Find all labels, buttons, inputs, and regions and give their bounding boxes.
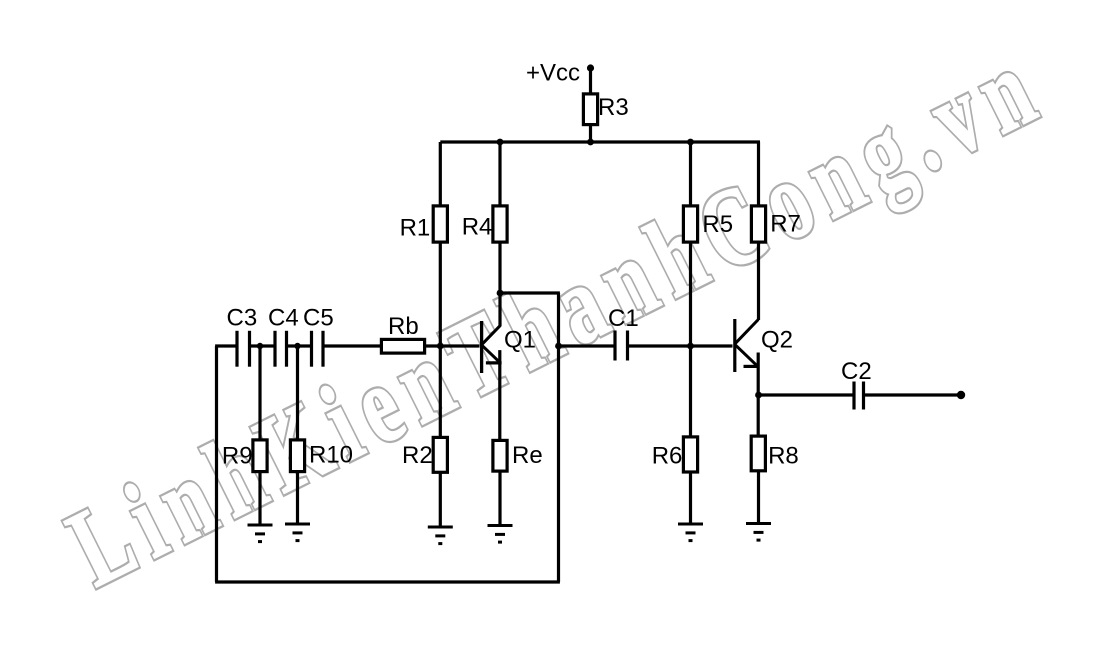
transistor Q2 xyxy=(735,319,793,372)
svg-text:R3: R3 xyxy=(598,94,629,121)
wire R6 to ground xyxy=(689,472,692,524)
svg-text:R7: R7 xyxy=(770,211,801,238)
svg-text:R9: R9 xyxy=(222,443,253,470)
svg-text:Re: Re xyxy=(512,442,543,469)
wire R4 upper lead xyxy=(498,142,501,205)
wire R10 drop xyxy=(296,346,299,439)
capacitor C1 xyxy=(608,305,639,361)
capacitor C5 xyxy=(303,305,334,367)
wire R5 lower lead xyxy=(689,244,692,346)
resistor R10 xyxy=(290,440,353,472)
ground R2 xyxy=(428,527,453,544)
wire R7 lower lead / Q2 collector lead xyxy=(757,244,760,321)
wire C4 to C5 xyxy=(288,344,311,347)
wire R5 upper lead xyxy=(689,142,692,205)
resistor R9 xyxy=(222,440,267,472)
ground R9 xyxy=(248,525,273,542)
resistor R4 xyxy=(462,206,507,242)
svg-text:C2: C2 xyxy=(841,358,872,385)
svg-text:Rb: Rb xyxy=(388,313,419,340)
capacitor C2 xyxy=(841,358,872,410)
svg-text:C4: C4 xyxy=(268,305,299,332)
wire Rb to Q1 base xyxy=(426,344,480,347)
transistor Q1 xyxy=(482,293,536,373)
ground R8 xyxy=(746,524,771,541)
wire input node left vertical xyxy=(215,346,218,582)
svg-text:R5: R5 xyxy=(702,211,733,238)
junction feedback tap xyxy=(555,343,562,350)
ground R10 xyxy=(285,524,310,541)
svg-text:LinhKienThanhCong.vn: LinhKienThanhCong.vn xyxy=(51,22,1063,611)
wire R10 to ground xyxy=(296,473,299,524)
wire R8 to ground xyxy=(757,472,760,524)
junction Q1 collector xyxy=(497,290,504,297)
junction R3-rail xyxy=(587,139,594,146)
wire Q2 base node to base xyxy=(691,344,733,347)
wire R9 to ground xyxy=(258,473,261,525)
wire tap to C1 xyxy=(559,344,615,347)
supply +Vcc terminal xyxy=(526,60,594,87)
wire C1 to Q2 base node xyxy=(629,344,691,347)
wire R3 bottom lead xyxy=(589,126,592,142)
svg-text:Q1: Q1 xyxy=(504,326,536,353)
junction C4-R10 xyxy=(294,343,300,349)
resistor Rb xyxy=(381,313,424,353)
wire C2 to output xyxy=(865,393,961,396)
wire R9 drop xyxy=(258,346,261,439)
wire R2 to ground xyxy=(439,473,442,527)
wire C5 to Rb xyxy=(324,344,380,347)
resistor R6 xyxy=(652,437,698,472)
wire Re to ground xyxy=(498,473,501,526)
output terminal xyxy=(957,391,965,399)
ground Re xyxy=(488,526,513,543)
wire feedback bottom xyxy=(215,580,560,583)
svg-text:+Vcc: +Vcc xyxy=(526,60,580,87)
wire C3 to C4 xyxy=(251,344,275,347)
svg-text:Q2: Q2 xyxy=(761,326,793,353)
wire R1 lower lead xyxy=(439,244,442,347)
wire R6 drop xyxy=(689,346,692,438)
wire collector to feedback top xyxy=(500,291,560,294)
junction R1-base xyxy=(437,343,444,350)
svg-text:R6: R6 xyxy=(652,443,683,470)
svg-text:C3: C3 xyxy=(227,305,258,332)
svg-text:R2: R2 xyxy=(402,442,433,469)
wire Vcc rail xyxy=(440,140,760,143)
svg-text:R4: R4 xyxy=(462,213,493,240)
wire feedback right vertical xyxy=(557,293,560,582)
resistor Re xyxy=(493,440,543,471)
wire R7 upper lead xyxy=(757,142,760,205)
resistor R8 xyxy=(751,436,799,471)
junction Q2 emitter-C2 xyxy=(755,392,762,399)
wire R2 drop xyxy=(439,346,442,437)
resistor R3 xyxy=(583,94,628,125)
wire R4 lower lead xyxy=(498,244,501,294)
wire Q2 emitter to C2 xyxy=(759,393,853,396)
ground R6 xyxy=(678,524,703,541)
junction R4-rail xyxy=(497,139,504,146)
wire Q2 emitter vertical xyxy=(757,353,760,437)
wire R1 upper lead xyxy=(439,142,442,205)
svg-text:R10: R10 xyxy=(309,441,353,468)
wire input to C3 xyxy=(215,344,236,347)
wire Q1 emitter vertical xyxy=(498,350,501,439)
svg-text:R8: R8 xyxy=(768,443,799,470)
svg-text:C1: C1 xyxy=(608,305,639,332)
junction R5-rail xyxy=(687,139,694,146)
junction C3-R9 xyxy=(257,343,263,349)
resistor R2 xyxy=(402,437,447,472)
svg-text:R1: R1 xyxy=(400,214,431,241)
junction Q2 base node xyxy=(687,343,694,350)
resistor R7 xyxy=(751,206,800,242)
wire R3 top lead xyxy=(589,68,592,93)
capacitor C3 xyxy=(227,305,258,367)
svg-text:C5: C5 xyxy=(303,305,334,332)
capacitor C4 xyxy=(268,305,299,367)
resistor R1 xyxy=(400,206,448,242)
resistor R5 xyxy=(683,206,733,242)
